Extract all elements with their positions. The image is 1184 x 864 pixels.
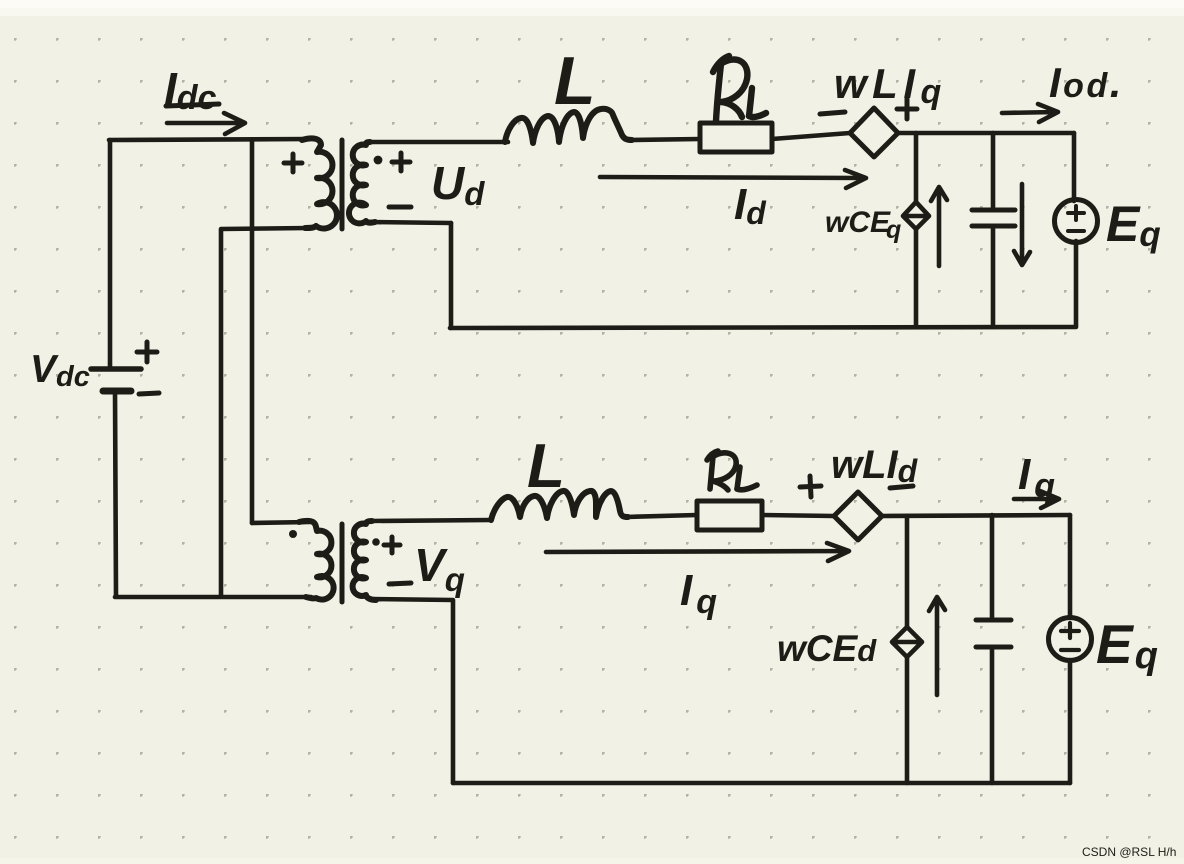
- wire: T2 secondary top to inductor L2: [368, 520, 491, 521]
- svg-text:L: L: [527, 432, 565, 501]
- wire: vertical A (T1 primary bottom return): [219, 230, 224, 596]
- T2 secondary polarity dot: [372, 538, 380, 546]
- resistor RL2 body: [697, 501, 762, 530]
- transformer T2 primary winding: [299, 521, 334, 600]
- svg-text:wCEq: wCEq: [825, 206, 901, 244]
- wLId minus sign: [890, 486, 913, 488]
- wire: capacitor C1 branch upper: [991, 133, 996, 210]
- transformer T1 primary winding: [302, 138, 337, 228]
- dependent source wLIq diamond: [850, 108, 898, 157]
- label Idc underline: [166, 104, 219, 106]
- wire: bottom circuit top rail right: [882, 515, 1070, 516]
- T2 primary polarity dot: [289, 530, 297, 538]
- current arrow Idc: [167, 113, 245, 134]
- wire: wCEq branch lower: [914, 229, 919, 327]
- wire: T2 primary top horizontal: [252, 522, 310, 523]
- lighter paper band at top edge: [0, 0, 1184, 16]
- label RL1 (script R with L subscript): [713, 56, 766, 121]
- wire: wCEq branch upper: [914, 133, 919, 203]
- capacitor C1 top plate: [972, 208, 1015, 213]
- inductor L1: [505, 109, 632, 143]
- wire: capacitor C2 branch lower: [990, 647, 995, 783]
- voltage source Eq1 circle: [1055, 200, 1098, 243]
- current arrow down (capacitor C1): [1014, 184, 1030, 265]
- current arrow Iq right: [1014, 491, 1059, 508]
- dependent source wCEd diamond: [892, 627, 922, 657]
- wire: bottom-left rail to T2 primary bottom: [115, 595, 311, 600]
- wire: battery top lead: [108, 140, 113, 368]
- Eq1 plus: [1068, 206, 1084, 220]
- resistor RL1 body: [700, 123, 772, 152]
- wire: capacitor C2 branch upper: [990, 515, 995, 620]
- current arrow Id: [600, 170, 866, 188]
- battery Vdc short plate: [103, 388, 131, 395]
- wire: battery bottom lead: [115, 391, 116, 596]
- label RL2 (script R with L subscript): [707, 451, 757, 490]
- T1 polarity dot: [374, 156, 383, 165]
- wire: wCEd branch lower: [905, 657, 910, 783]
- wire: resistor RL2 to diamond wLId: [762, 515, 834, 516]
- wire: T1 primary bottom horizontal: [221, 228, 309, 229]
- T1 secondary minus label: [389, 205, 411, 210]
- wire: source Eq1 branch lower: [1074, 241, 1079, 326]
- transformer T2 core bar: [340, 524, 345, 602]
- transformer T2 secondary winding: [353, 521, 376, 600]
- wire: T1 secondary top to inductor L1: [368, 140, 508, 145]
- T1 primary plus label: [284, 154, 302, 172]
- battery Vdc long plate: [91, 366, 141, 372]
- wLIq minus sign: [820, 112, 845, 114]
- wLIq plus sign: [897, 99, 917, 119]
- transformer T1 core bar: [340, 140, 345, 229]
- current arrow Iq mid: [546, 543, 849, 561]
- wire: wCEd branch upper: [905, 516, 910, 627]
- wire: inductor L2 to resistor RL2: [625, 515, 697, 517]
- current arrow up (wCEq branch): [931, 187, 947, 266]
- capacitor C2 top plate: [976, 618, 1011, 623]
- svg-text:Iod.: Iod.: [1049, 59, 1124, 106]
- wire: top rail from battery to transformer T1 primary top: [109, 139, 310, 140]
- wire: vertical B (T2 primary top feed): [250, 141, 255, 523]
- T2 secondary plus label: [384, 537, 400, 553]
- svg-text:L: L: [554, 43, 596, 119]
- wire: top circuit bottom rail: [450, 327, 1076, 328]
- svg-text:wCEd: wCEd: [777, 628, 877, 669]
- wire: capacitor C1 branch lower: [991, 226, 996, 327]
- wire: source Eq1 branch upper: [1072, 133, 1077, 201]
- wire: bottom circuit bottom rail: [453, 781, 1070, 786]
- battery minus sign: [139, 393, 159, 394]
- current arrow Iod: [1002, 104, 1058, 122]
- wire: inductor L1 to resistor RL1: [630, 139, 700, 140]
- wire: bottom circuit left return vertical: [451, 601, 456, 783]
- dependent source wLId diamond: [834, 492, 882, 540]
- current arrow up (wCEd branch): [929, 597, 945, 695]
- wire: T1 secondary bottom horizontal: [370, 222, 451, 223]
- transformer T1 secondary winding: [349, 142, 375, 223]
- wire: top rail diamond to right branch: [898, 131, 1074, 136]
- capacitor C2 bottom plate: [976, 645, 1011, 650]
- battery plus sign: [137, 342, 157, 362]
- T2 secondary minus label: [389, 583, 411, 584]
- wire: source Eq2 branch lower: [1068, 660, 1073, 783]
- capacitor C1 bottom plate: [972, 224, 1015, 229]
- Eq2 plus: [1061, 623, 1079, 638]
- wire: top circuit left return vertical: [449, 223, 454, 328]
- svg-text:CSDN @RSL H/h: CSDN @RSL H/h: [1082, 845, 1176, 859]
- wire: source Eq2 branch upper: [1068, 515, 1073, 618]
- dependent source wCEq diamond: [903, 202, 929, 229]
- Eq2 minus: [1061, 648, 1079, 652]
- inductor L2: [491, 491, 628, 520]
- wire: resistor RL1 to diamond source wLIq: [772, 133, 850, 139]
- T1 secondary plus label: [392, 153, 410, 171]
- Eq1 minus: [1068, 229, 1084, 233]
- wLId plus sign: [800, 476, 821, 497]
- voltage source Eq2 circle: [1049, 618, 1092, 661]
- wire: T2 secondary bottom horizontal: [370, 599, 453, 600]
